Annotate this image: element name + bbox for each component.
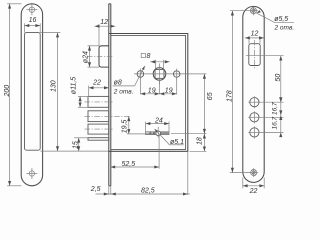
dimension 178 <box>227 11 250 173</box>
bar3 center line <box>85 128 114 130</box>
dimension 19 19 <box>140 78 176 96</box>
bar1 center line <box>85 101 114 103</box>
hub center lines <box>134 73 207 75</box>
latch hole 2 <box>248 111 260 123</box>
dimension 24 <box>146 117 169 131</box>
body inner (cover) outline <box>111 35 186 149</box>
key bar right section fill <box>161 132 169 134</box>
latch center line <box>87 55 114 57</box>
key pin hole o5.1 <box>156 131 161 136</box>
svg-text:16,7: 16,7 <box>271 116 278 129</box>
svg-text:24: 24 <box>154 117 163 124</box>
key bar inner ticks <box>149 132 151 134</box>
dimension 15 <box>73 138 89 151</box>
svg-text:22: 22 <box>249 188 258 195</box>
faceplate outline <box>21 4 42 186</box>
dimension 12 (slot) <box>245 31 264 44</box>
svg-text:52,5: 52,5 <box>122 161 136 168</box>
svg-text:15: 15 <box>73 141 80 149</box>
svg-text:19: 19 <box>165 88 173 95</box>
svg-text:2 отв.: 2 отв. <box>274 24 295 31</box>
dimension 52.5 <box>110 136 159 169</box>
slot <box>249 44 260 66</box>
hub square hole <box>155 69 164 78</box>
svg-text:8: 8 <box>147 53 151 60</box>
svg-text:50: 50 <box>275 74 282 82</box>
svg-text:22: 22 <box>92 79 101 86</box>
svg-text:16,7: 16,7 <box>271 102 278 115</box>
faceplate inner slot <box>25 33 41 151</box>
o8 2 holes label <box>113 65 146 95</box>
bottom screw hole <box>26 168 37 179</box>
dimension 19.5 <box>121 116 156 134</box>
dimension 130 <box>40 33 109 152</box>
top screw hole <box>26 4 37 15</box>
dimension 18 <box>190 134 207 152</box>
dimensions 16.7 16.7 <box>261 97 284 137</box>
key bit bar <box>146 132 169 135</box>
svg-text:200: 200 <box>4 85 11 98</box>
svg-text:65: 65 <box>207 92 214 100</box>
svg-text:18: 18 <box>196 137 203 145</box>
latch hole 1 <box>248 96 260 108</box>
deadbolt bar 2 <box>88 111 109 122</box>
bar2 center line (extended right for 19.5 dim) <box>85 115 130 117</box>
slot center lines <box>254 40 256 70</box>
right mounting hole o8 <box>174 71 180 77</box>
deadbolt bar 1 <box>88 96 109 107</box>
svg-text:178: 178 <box>227 90 234 102</box>
dimension 16 <box>25 17 41 32</box>
svg-text:19,5: 19,5 <box>121 120 128 134</box>
svg-text:ø8: ø8 <box>114 80 122 87</box>
bottom screw hole (countersunk) <box>249 168 258 177</box>
dimension o24 <box>83 46 100 67</box>
top screw hole (countersunk) <box>249 6 258 15</box>
svg-text:2 отв.: 2 отв. <box>113 89 134 96</box>
svg-text:2,5: 2,5 <box>90 186 101 193</box>
o5.5 2 holes label <box>256 10 294 31</box>
latch hole 3 <box>248 126 260 138</box>
svg-text:19: 19 <box>148 88 156 95</box>
key vertical center line <box>157 127 159 138</box>
svg-text:12: 12 <box>100 19 108 26</box>
dimension 22 <box>89 79 109 96</box>
left mounting hole o8 <box>137 71 144 78</box>
body outer outline <box>109 34 188 152</box>
svg-text:82,5: 82,5 <box>141 187 155 194</box>
dimension 200 <box>4 4 22 186</box>
svg-text:ø11,5: ø11,5 <box>70 77 77 94</box>
deadbolt bar 3 <box>88 124 109 134</box>
svg-text:12: 12 <box>251 31 259 38</box>
o5.1 label and leader <box>153 128 184 146</box>
dimension 50 <box>261 56 284 102</box>
strike plate outline <box>243 6 264 182</box>
dimension 12 top <box>94 19 115 46</box>
bottom dimension row: 25 and 82.5 <box>90 151 190 195</box>
dimension 65 <box>171 74 214 134</box>
svg-text:130: 130 <box>50 80 57 92</box>
deadbolt thin bar 4 <box>88 138 109 141</box>
dimension square 8 <box>141 53 170 68</box>
faceplate side view <box>109 4 111 186</box>
svg-text:ø24: ø24 <box>83 51 90 63</box>
dimension o11.5 <box>70 77 88 108</box>
hub circle <box>153 68 166 81</box>
latch bolt <box>99 46 109 67</box>
svg-text:16: 16 <box>29 17 37 24</box>
dimension 22 (bottom) <box>243 178 264 195</box>
